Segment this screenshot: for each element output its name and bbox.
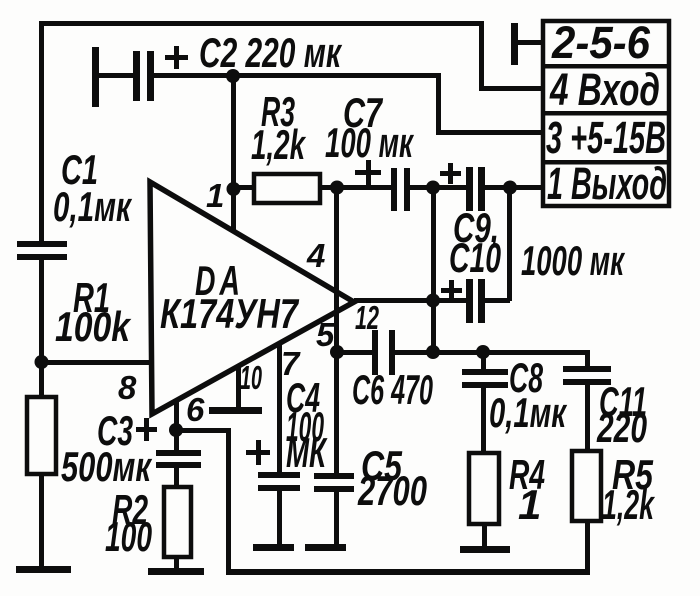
wire C7 to node B	[410, 185, 433, 190]
svg-text:МК: МК	[286, 429, 328, 476]
wire C11 to R5	[585, 385, 590, 452]
connection table	[543, 21, 669, 206]
wire node D to C11 corner	[483, 350, 590, 355]
node C2 right junction	[226, 69, 240, 83]
wire pin1 junction to R3	[236, 185, 254, 190]
svg-text:500мк: 500мк	[61, 443, 152, 490]
svg-text:2700: 2700	[357, 467, 427, 514]
capacitor C3	[174, 430, 179, 452]
svg-text:100: 100	[105, 513, 152, 560]
ground C5	[305, 544, 346, 551]
wire C6 to node C	[395, 350, 433, 355]
common bar symbol for pins 2-5-6	[511, 23, 518, 65]
svg-text:1000 мк: 1000 мк	[521, 237, 625, 284]
wire R5 to bottom rail	[585, 521, 590, 573]
wire pin 8	[41, 360, 151, 365]
capacitor C7	[391, 168, 397, 211]
svg-text:C6 470: C6 470	[352, 366, 433, 413]
node R1/pin8 junction	[35, 355, 49, 369]
wire R3 to node A	[320, 185, 338, 190]
wire vertical line B (output column)	[431, 187, 436, 352]
wire C2 junction down to pin 1	[231, 76, 236, 189]
node pin 1 junction	[227, 182, 241, 196]
svg-text:4: 4	[306, 237, 325, 274]
op-amp U1 triangle DA К174УН7	[150, 182, 354, 414]
wire C8 top stub	[481, 352, 486, 370]
svg-text:220: 220	[596, 404, 647, 451]
node C (C6 right)	[426, 345, 440, 359]
wire node A to C7	[337, 185, 392, 190]
capacitor C8	[462, 369, 508, 375]
wire to table row 1 Выход	[510, 185, 543, 190]
wire pin5 to C6	[337, 350, 373, 355]
svg-text:1: 1	[518, 481, 541, 528]
wire C4 to ground	[277, 491, 282, 546]
wire into table row 3	[436, 130, 543, 135]
capacitor C6	[372, 330, 378, 375]
plus sign C3	[136, 427, 157, 432]
node B (C7 right)	[426, 181, 440, 195]
plus sign C9	[440, 171, 461, 176]
plus sign C4	[246, 450, 270, 455]
svg-text:3 +5-15В: 3 +5-15В	[546, 112, 666, 163]
wire pin 1 stub to op-amp	[231, 189, 236, 233]
capacitor C4	[258, 472, 300, 478]
svg-text:1 Выход: 1 Выход	[547, 158, 667, 209]
wire C2 to supply corner	[233, 73, 440, 78]
ground R4	[460, 546, 510, 553]
node pin 6	[169, 423, 183, 437]
node output to table	[503, 181, 517, 195]
capacitor C10	[466, 279, 473, 323]
svg-text:4 Вход: 4 Вход	[549, 64, 660, 115]
wire node C to node D	[433, 350, 483, 355]
wire vertical line A (pin4 / pin5 / C5 column)	[334, 187, 339, 474]
wire C11 corner down	[585, 350, 590, 368]
resistor R2	[164, 487, 191, 557]
svg-text:1,2k: 1,2k	[602, 481, 656, 528]
node A (R3 right / feedback)	[330, 181, 344, 195]
resistor R3	[254, 174, 320, 203]
svg-text:8: 8	[118, 369, 137, 406]
svg-text:1: 1	[206, 177, 224, 214]
capacitor C11	[563, 366, 611, 372]
wire bottom rail left vertical	[226, 430, 231, 572]
wire pin 6 stub	[174, 400, 179, 430]
wire C10 right lead	[484, 298, 510, 303]
svg-text:0,1мк: 0,1мк	[53, 183, 132, 230]
capacitor C1	[17, 241, 67, 247]
capacitor C5	[314, 473, 354, 479]
svg-text:1,2k: 1,2k	[251, 121, 307, 168]
resistor R4	[469, 453, 499, 524]
wire left vertical middle	[39, 260, 44, 397]
ground pin 10	[209, 407, 262, 414]
capacitor C2	[92, 47, 99, 107]
wire R2 to ground	[174, 557, 179, 571]
svg-text:К174УН7: К174УН7	[160, 290, 299, 337]
wire supply corner down	[436, 73, 441, 135]
wire R4 to ground	[482, 524, 487, 546]
capacitor C9	[433, 185, 466, 190]
wire pin 7 / C4 column	[277, 342, 282, 473]
ground R2	[148, 568, 204, 575]
wire pin 6 horizontal	[176, 428, 231, 433]
node pin 5 / C6 left	[330, 345, 344, 359]
svg-text:C2 220 мк: C2 220 мк	[199, 29, 342, 76]
node D (C8 top)	[476, 345, 490, 359]
svg-text:10: 10	[240, 359, 262, 396]
svg-text:C10: C10	[449, 234, 501, 281]
wire bottom rail	[226, 569, 590, 575]
wire left vertical lower	[39, 474, 44, 568]
wire input corner down	[479, 21, 484, 91]
svg-text:100 мк: 100 мк	[325, 119, 414, 166]
resistor R5	[572, 451, 601, 521]
plus sign C7	[355, 170, 381, 175]
wire into table row 2	[479, 86, 543, 91]
wire top rail (input to table row 4 Вход)	[39, 21, 484, 26]
wire C8 to R4	[481, 388, 486, 453]
ground left	[16, 566, 71, 573]
wire C5 to ground	[334, 492, 339, 546]
svg-text:100k: 100k	[55, 303, 132, 350]
wire left vertical upper	[39, 21, 44, 242]
plus sign C2	[165, 55, 188, 60]
wire pin 10 stub	[236, 366, 241, 409]
svg-text:2-5-6: 2-5-6	[551, 17, 651, 68]
svg-text:0,1мк: 0,1мк	[489, 389, 567, 436]
resistor R1	[27, 397, 56, 474]
wire op-amp output (pin 12)	[354, 298, 433, 303]
svg-text:6: 6	[186, 391, 205, 428]
plus sign C10	[441, 288, 462, 293]
wire right vertical from output node down	[507, 188, 512, 301]
ground C4	[253, 544, 294, 551]
node output junction	[426, 294, 440, 308]
